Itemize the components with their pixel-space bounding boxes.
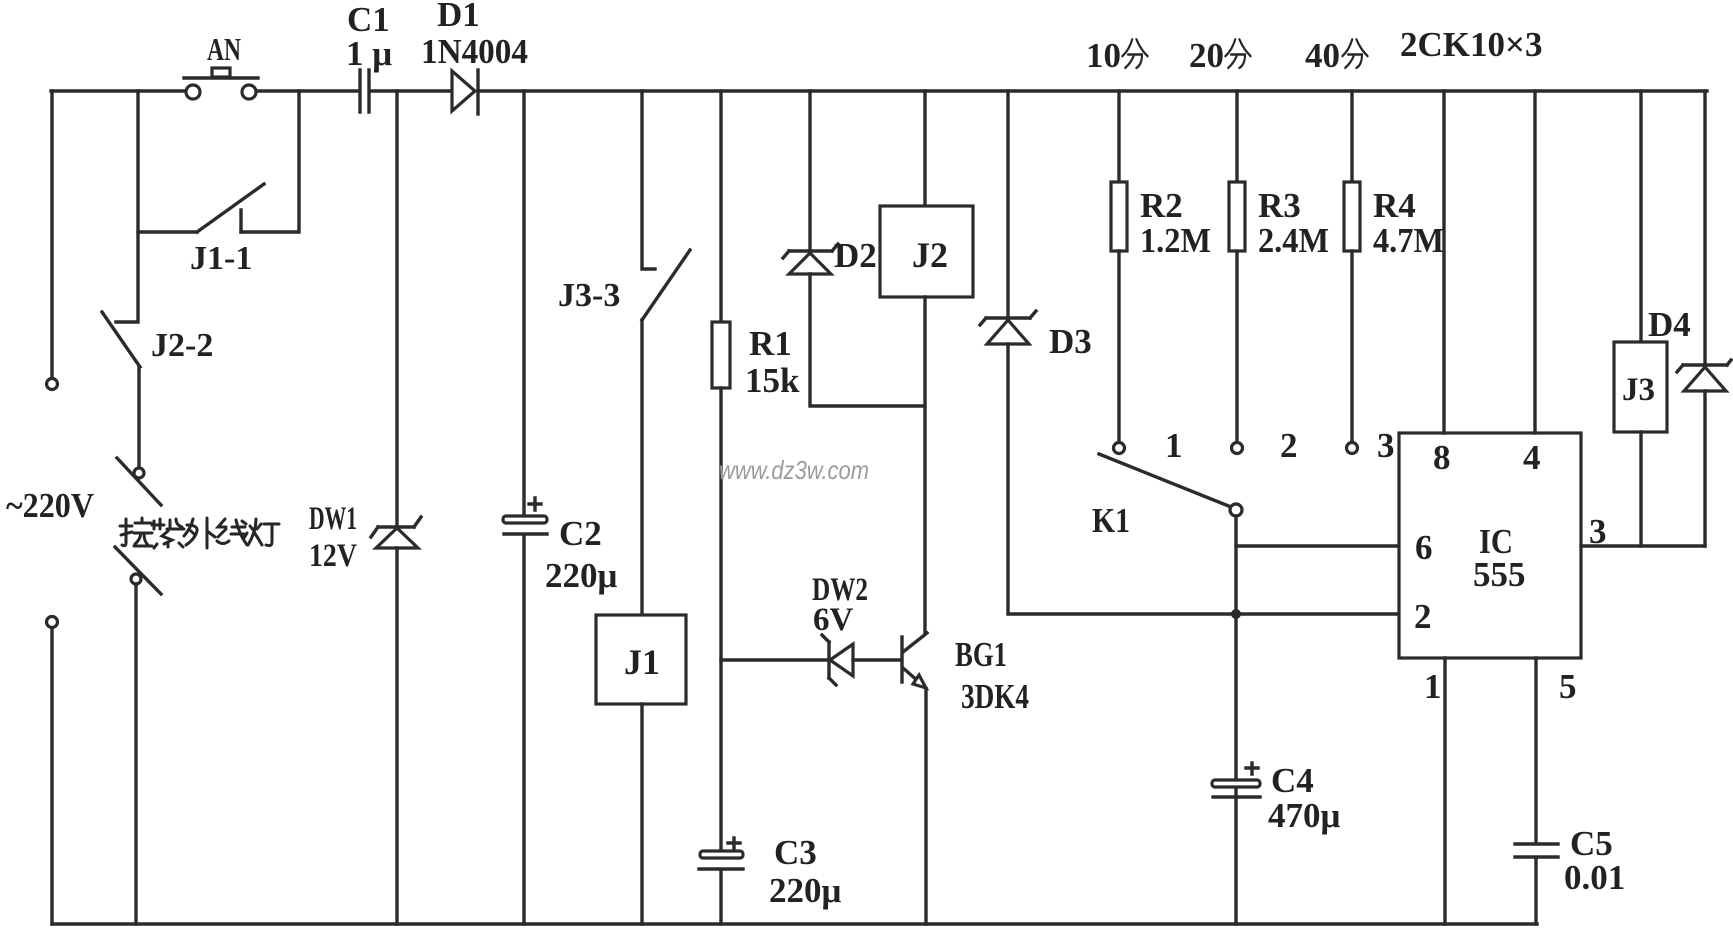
wire R2 branch lower [1117,251,1120,442]
svg-text:40: 40 [1305,36,1340,75]
svg-text:R4: R4 [1373,186,1416,225]
svg-text:R3: R3 [1258,186,1301,225]
wire J3 lower [1639,432,1642,546]
wire bottom return rail [52,922,1537,925]
svg-text:J1: J1 [624,642,660,682]
wire D4 branch upper [1703,91,1706,365]
node lamp terminal bottom [131,574,141,584]
wire C2 branch lower [522,537,525,924]
wire D3 branch upper [1006,91,1009,318]
wire lamp branch middle [137,367,140,467]
capacitor C4 [1212,763,1260,797]
wire R3 branch lower [1235,251,1238,442]
zener D2 [783,244,838,274]
wire C3 lower [719,871,722,924]
wire DW2 link [721,658,826,661]
wire 220V branch upper [50,91,53,378]
wire D3 to pin2 [1008,344,1399,614]
relay J3 [1614,342,1667,432]
svg-text:3DK4: 3DK4 [961,677,1029,716]
node K1 pivot [1230,504,1242,516]
resistor R4 [1344,182,1360,251]
wire emitter to bottom rail [924,689,927,924]
wire D2 branch upper [808,91,811,251]
svg-text:2: 2 [1414,597,1432,636]
svg-text:220μ: 220μ [769,871,842,910]
wire K1 common drop [1234,516,1237,924]
svg-text:www.dz3w.com: www.dz3w.com [719,455,869,485]
op-amp IC 555 box [1399,433,1581,658]
node lamp terminal top [134,468,144,478]
svg-text:20: 20 [1189,36,1224,75]
svg-text:1: 1 [1424,667,1442,706]
svg-text:5: 5 [1559,667,1577,706]
wire pin 8 drop [1442,91,1445,433]
switch J2-2 [102,312,140,367]
wire lamp branch upper [116,91,138,322]
svg-text:C3: C3 [774,833,817,872]
switch J3-3 [642,250,690,320]
svg-text:R1: R1 [749,324,792,363]
svg-text:4.7M: 4.7M [1373,221,1444,260]
node terminal 3 [1347,443,1358,454]
relay J1 [596,615,686,704]
wire R3 branch upper [1235,91,1238,182]
wire lamp plug slash top [117,458,161,505]
wire 220V branch lower [50,628,53,924]
wire J1 lower [640,704,643,924]
wire C5 lower [1534,859,1537,924]
transistor BG1 [902,633,927,688]
svg-text:R2: R2 [1140,186,1183,225]
svg-text:J1-1: J1-1 [190,240,252,277]
svg-text:12V: 12V [309,538,357,574]
wire J3-3 branch upper [642,91,655,269]
resistor R2 [1111,182,1127,251]
wire R2 branch upper [1117,91,1120,182]
capacitor C5 [1515,844,1558,857]
wire J3 branch upper [1639,91,1642,342]
wire DW2 to base [853,658,900,661]
wire pin 4 drop [1533,91,1536,433]
switch K1 [1099,454,1231,507]
node junction pin2/C4 [1231,609,1241,619]
capacitor C2 [503,498,547,534]
wire C2 branch upper [522,91,525,516]
svg-text:~220V: ~220V [6,486,94,525]
svg-text:1: 1 [1165,426,1183,465]
svg-text:2.4M: 2.4M [1258,221,1329,260]
label 接紫外线灯 [120,518,279,548]
svg-text:1N4004: 1N4004 [421,32,528,71]
relay J2 [880,206,973,297]
svg-text:15k: 15k [745,361,800,400]
capacitor C1 [360,70,369,112]
node 220V terminal top [47,379,58,390]
svg-text:4: 4 [1523,438,1541,477]
wire R4 branch lower [1350,251,1353,442]
node terminal 2 [1232,443,1243,454]
node 220V terminal bottom [47,617,58,628]
svg-text:BG1: BG1 [955,635,1007,674]
wire top supply rail [51,89,1707,92]
svg-text:C4: C4 [1271,761,1314,800]
svg-text:J3: J3 [1622,372,1655,408]
zener D3 [980,311,1036,344]
node terminal 1 [1114,443,1125,454]
switch J1-1 [138,184,264,232]
wire R1 branch lower [719,388,722,851]
wire lamp branch lower [134,584,137,924]
capacitor C3 [699,838,743,869]
wire AN right drop [241,91,299,232]
wire pin6 link [1236,544,1399,547]
svg-text:J3-3: J3-3 [558,277,620,314]
wire D4 lower [1703,391,1706,546]
wire R4 branch upper [1350,91,1353,182]
diode D1 [452,70,478,114]
svg-text:1 μ: 1 μ [346,34,392,73]
svg-text:6: 6 [1415,528,1433,567]
wire J2 lower [923,297,926,633]
svg-text:D1: D1 [437,0,480,34]
svg-text:2CK10×3: 2CK10×3 [1400,25,1542,64]
wire R1 branch upper [719,91,722,322]
wire pin 5 drop [1534,658,1537,843]
zener D4 [1677,360,1731,391]
svg-text:D4: D4 [1648,305,1691,344]
svg-text:J2: J2 [912,235,948,275]
svg-text:0.01: 0.01 [1564,858,1625,897]
svg-text:3: 3 [1377,426,1395,465]
pushbutton AN [184,68,258,99]
svg-text:2: 2 [1280,426,1298,465]
wire lamp plug slash bottom [115,547,161,594]
svg-text:1.2M: 1.2M [1140,221,1211,260]
wire J2 branch upper [923,91,926,206]
zener DW1 [371,517,421,548]
zener DW2 [822,635,853,685]
svg-text:D3: D3 [1049,322,1092,361]
svg-text:8: 8 [1433,438,1451,477]
svg-text:470μ: 470μ [1268,796,1341,835]
wire DW1 branch upper [395,91,398,527]
svg-text:10: 10 [1086,36,1121,75]
svg-text:555: 555 [1473,555,1526,594]
svg-text:K1: K1 [1092,501,1130,540]
svg-text:AN: AN [207,31,241,67]
svg-text:J2-2: J2-2 [151,327,213,364]
svg-text:D2: D2 [834,236,877,275]
svg-text:C2: C2 [559,514,602,553]
wire pin 1 drop [1443,658,1446,924]
wire DW1 branch lower [395,548,398,924]
wire J3-3 to relay J1 [640,320,643,615]
resistor R1 [712,322,730,388]
svg-text:220μ: 220μ [545,556,618,595]
resistor R3 [1229,182,1245,251]
wire D2 lower link [810,274,925,406]
svg-text:DW1: DW1 [309,501,357,537]
svg-text:6V: 6V [813,602,854,638]
wire pin 3 link [1581,544,1705,547]
